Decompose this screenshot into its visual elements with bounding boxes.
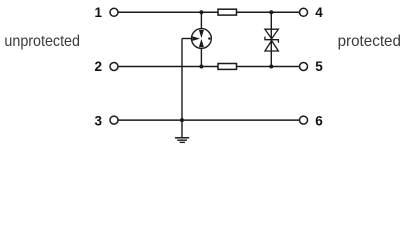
junction line2/TVS [269,65,273,69]
svg-text:5: 5 [315,59,323,74]
wire line 1 (terminal 1 to terminal 4) [119,11,300,13]
wire line 2 (terminal 2 to terminal 5) [119,66,300,68]
svg-text:2: 2 [94,59,102,74]
terminal 1 [110,8,118,16]
wire line 3 (terminal 3 to terminal 6) [119,119,300,121]
terminal 5 [300,63,308,71]
wire ground branch vertical [181,39,183,138]
gas discharge tube F1 (3-electrode surge arrester) [192,29,212,49]
label protected side [338,33,401,50]
svg-text:unprotected: unprotected [4,32,80,50]
svg-text:6: 6 [315,113,323,128]
resistor R2 (series impedance, line 2) [218,64,237,70]
label unprotected side [4,32,80,50]
svg-text:3: 3 [94,113,102,128]
terminal 4 [300,8,308,16]
wire TVS branch (line 1 to line 2) [270,12,272,66]
junction line1/GDT [199,10,203,14]
terminal 6 [300,116,308,124]
svg-text:protected: protected [338,33,401,50]
ground symbol [175,138,189,143]
terminal 2 [110,63,118,71]
junction line2/GDT [199,65,203,69]
wire GDT top electrode (line 1 to arrester) [200,12,202,29]
suppressor diode D1 (bidirectional TVS) [265,29,279,51]
svg-text:4: 4 [315,5,323,20]
resistor R1 (series impedance, line 1) [218,9,237,15]
svg-text:1: 1 [94,5,102,20]
wire GDT bottom electrode (arrester to line 2) [200,48,202,67]
junction line1/TVS [269,10,273,14]
junction line3/ground [180,118,184,122]
wire ground branch horizontal (arrester left electrode) [182,38,192,40]
terminal 3 [110,116,118,124]
